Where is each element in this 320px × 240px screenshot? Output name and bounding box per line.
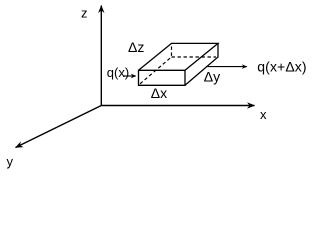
svg-text:q(x+Δx): q(x+Δx) [257,58,306,74]
svg-text:Δx: Δx [151,85,167,101]
svg-text:y: y [7,154,14,169]
svg-text:Δz: Δz [128,39,144,55]
svg-text:z: z [81,5,88,20]
svg-text:q(x): q(x) [107,65,129,80]
svg-text:x: x [260,107,267,122]
svg-text:Δy: Δy [204,68,220,84]
